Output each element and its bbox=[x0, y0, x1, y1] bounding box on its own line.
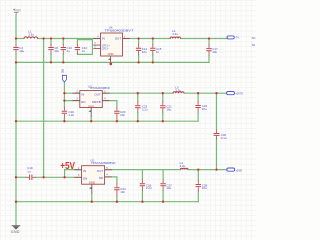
svg-text:0.1u: 0.1u bbox=[221, 136, 227, 140]
cap lead C23 bbox=[137, 101, 139, 112]
svg-text:10u: 10u bbox=[19, 49, 24, 53]
svg-text:+5VD: +5VD bbox=[236, 168, 243, 172]
svg-text:TPS7A2033DBVR: TPS7A2033DBVR bbox=[90, 86, 110, 90]
wire U3 IN bbox=[64, 92, 79, 94]
inductor L1 bbox=[24, 37, 38, 39]
cap lead C28 bbox=[197, 180, 199, 192]
svg-text:GND: GND bbox=[108, 52, 114, 56]
cap lead C4 bbox=[15, 44, 17, 54]
svg-text:EN: EN bbox=[81, 100, 85, 104]
cap lead C20 bbox=[116, 107, 118, 121]
svg-text:1u: 1u bbox=[67, 49, 71, 53]
wire +5V corner bbox=[64, 170, 66, 178]
svg-text:TPS7A2050DBVR: TPS7A2050DBVR bbox=[91, 161, 116, 165]
wire EN rail right of C19 bbox=[36, 176, 81, 178]
capacitor C19 horizontal bbox=[30, 175, 32, 180]
wire long vertical to row3 bbox=[216, 93, 218, 169]
port -7V bbox=[227, 36, 239, 40]
svg-text:10n: 10n bbox=[120, 190, 125, 194]
capacitor C15 bbox=[150, 48, 155, 50]
capacitor C14 bbox=[136, 48, 141, 50]
svg-text:10n: 10n bbox=[120, 113, 125, 117]
wire pentagon label stem bbox=[63, 82, 65, 93]
capacitor C23 bbox=[135, 106, 140, 108]
cap lead C14 bbox=[138, 44, 140, 55]
op-amp U2 LDO bbox=[74, 158, 115, 186]
wire C16 legs bbox=[63, 93, 65, 121]
ground flag U2 bbox=[89, 186, 92, 193]
wire flying-cap loop bbox=[77, 40, 92, 55]
junction dots en rail row3 bbox=[15, 176, 17, 178]
wire C28 legs bbox=[197, 170, 199, 202]
ground symbol bottom-left bbox=[11, 226, 20, 234]
wire U2 OUT run bbox=[105, 169, 227, 171]
cap lead C21 bbox=[162, 101, 164, 112]
cap lead C19 bbox=[26, 176, 37, 178]
capacitor C20 bbox=[114, 111, 119, 113]
cap lead C8 bbox=[50, 44, 52, 54]
capacitor C27 bbox=[160, 184, 165, 186]
junction dots gnd rail1 bbox=[15, 61, 17, 63]
wire vin drop from flag bbox=[15, 15, 17, 39]
svg-text:10u: 10u bbox=[202, 107, 207, 111]
op-amp U3 LDO bbox=[73, 84, 110, 110]
global label 5V pentagon bbox=[61, 68, 67, 82]
wire U3 gnd lower bbox=[90, 117, 92, 121]
wire C23 legs bbox=[137, 93, 139, 121]
svg-text:NR/FB: NR/FB bbox=[92, 100, 101, 104]
svg-text:1u: 1u bbox=[27, 169, 31, 173]
wire U2 gnd lower bbox=[91, 194, 93, 202]
svg-text:10u: 10u bbox=[202, 186, 207, 190]
svg-text:1u: 1u bbox=[156, 50, 160, 54]
wire U4 OUT to -7V port bbox=[123, 38, 228, 40]
cap lead C10 bbox=[62, 44, 64, 54]
inductor L2 bbox=[170, 37, 180, 39]
svg-text:IN: IN bbox=[81, 92, 84, 96]
svg-text:OUT: OUT bbox=[97, 169, 104, 173]
cap lead C15 bbox=[152, 44, 154, 55]
wire C26 legs bbox=[141, 170, 143, 202]
svg-text:-7V: -7V bbox=[235, 36, 239, 40]
wire +5V feeder vertical bbox=[43, 39, 45, 178]
cap lead C16 bbox=[63, 107, 65, 119]
junction dots row2 out bbox=[63, 92, 65, 94]
svg-text:OUT: OUT bbox=[115, 37, 122, 41]
wire C10 legs bbox=[62, 39, 64, 63]
svg-text:3.3u: 3.3u bbox=[180, 164, 186, 168]
wire U2 IN bbox=[65, 169, 82, 171]
wire U3 OUT run bbox=[102, 92, 226, 94]
svg-text:10u: 10u bbox=[166, 107, 171, 111]
svg-text:TPS60403DBVT: TPS60403DBVT bbox=[105, 28, 134, 32]
cap lead C27 bbox=[162, 179, 164, 190]
wire C14 legs bbox=[138, 39, 140, 63]
wire vin rail after L1 to U4 IN bbox=[38, 38, 101, 40]
svg-text:SC: SC bbox=[252, 36, 256, 40]
svg-text:10u: 10u bbox=[142, 50, 147, 54]
junction dots gnd rail3 bbox=[15, 201, 17, 203]
svg-text:10u: 10u bbox=[166, 186, 171, 190]
svg-text:IN: IN bbox=[83, 169, 86, 173]
ground flag U4 bbox=[108, 58, 111, 62]
svg-text:+0V75: +0V75 bbox=[235, 92, 243, 96]
inductor L4 bbox=[180, 168, 188, 169]
wire C21 legs bbox=[162, 93, 164, 121]
power flag VIN top-left bbox=[13, 9, 22, 15]
svg-text:1u: 1u bbox=[82, 49, 86, 53]
capacitor C28 bbox=[196, 185, 201, 187]
svg-text:S2: S2 bbox=[252, 43, 256, 47]
wire C17 legs bbox=[208, 39, 210, 63]
wire gnd rail row3 bbox=[16, 201, 198, 203]
svg-text:CFLY-: CFLY- bbox=[102, 47, 109, 51]
wire C4 legs bbox=[15, 39, 17, 63]
capacitor C22 bbox=[195, 106, 200, 108]
wire C15 legs bbox=[152, 39, 154, 63]
svg-text:EN: EN bbox=[83, 177, 87, 181]
port +0V75 bbox=[227, 92, 244, 96]
svg-text:3.3u: 3.3u bbox=[28, 33, 34, 37]
junction dots row3 out bbox=[197, 168, 199, 170]
wire left gnd bus bbox=[15, 62, 17, 225]
capacitor C30 bbox=[214, 134, 220, 136]
capacitor C8 bbox=[48, 48, 53, 50]
wire EN rail left of C19 bbox=[16, 176, 26, 178]
svg-text:+5V: +5V bbox=[60, 161, 75, 172]
svg-text:3.3u: 3.3u bbox=[175, 89, 181, 93]
wire C22 legs bbox=[197, 93, 199, 121]
ground flag U3 bbox=[88, 110, 91, 117]
wire gnd rail row1 bbox=[16, 61, 209, 63]
wire U2 NR to C24 bbox=[105, 177, 117, 202]
wire vin rail segment before L1 bbox=[16, 38, 24, 40]
cap lead C30 bbox=[216, 130, 218, 139]
svg-text:2.2u: 2.2u bbox=[69, 113, 75, 117]
wire C27 legs bbox=[162, 170, 164, 202]
capacitor C12 flying bbox=[75, 48, 80, 50]
svg-text:OUT: OUT bbox=[94, 92, 101, 96]
svg-text:10u: 10u bbox=[54, 49, 59, 53]
cap lead C22 bbox=[197, 101, 199, 112]
wire U3 NR to C20 bbox=[102, 101, 117, 107]
junction dots gnd rail2 bbox=[15, 120, 17, 122]
capacitor C24 bbox=[114, 188, 119, 190]
capacitor C16 bbox=[62, 111, 67, 113]
junction dots rail1 bbox=[15, 37, 17, 39]
cap lead C12 bbox=[76, 44, 78, 54]
junction dot row2 en bbox=[63, 99, 65, 101]
wire C8 legs bbox=[50, 39, 52, 63]
inductor L3 bbox=[173, 92, 184, 94]
cap lead C17 bbox=[208, 44, 210, 55]
svg-text:GND: GND bbox=[88, 104, 94, 108]
svg-text:3.3u: 3.3u bbox=[172, 32, 178, 36]
svg-text:GND: GND bbox=[11, 230, 20, 234]
port +5VD bbox=[227, 168, 242, 172]
svg-text:2.2u: 2.2u bbox=[146, 186, 152, 190]
capacitor C17 bbox=[206, 49, 211, 51]
cap lead C24 bbox=[116, 183, 118, 197]
svg-text:GND: GND bbox=[89, 181, 95, 185]
cap lead C26 bbox=[141, 179, 143, 190]
capacitor C4 bbox=[13, 48, 18, 50]
wire U3 EN bbox=[64, 100, 79, 102]
capacitor C21 bbox=[160, 106, 165, 108]
svg-text:IN: IN bbox=[102, 37, 105, 41]
capacitor C26 bbox=[140, 184, 145, 186]
op-amp U4 charge pump bbox=[93, 26, 133, 59]
wire gnd rail row2 bbox=[16, 120, 198, 122]
svg-text:10u: 10u bbox=[212, 50, 217, 54]
capacitor C10 bbox=[61, 48, 66, 50]
svg-text:2.2u: 2.2u bbox=[142, 107, 148, 111]
